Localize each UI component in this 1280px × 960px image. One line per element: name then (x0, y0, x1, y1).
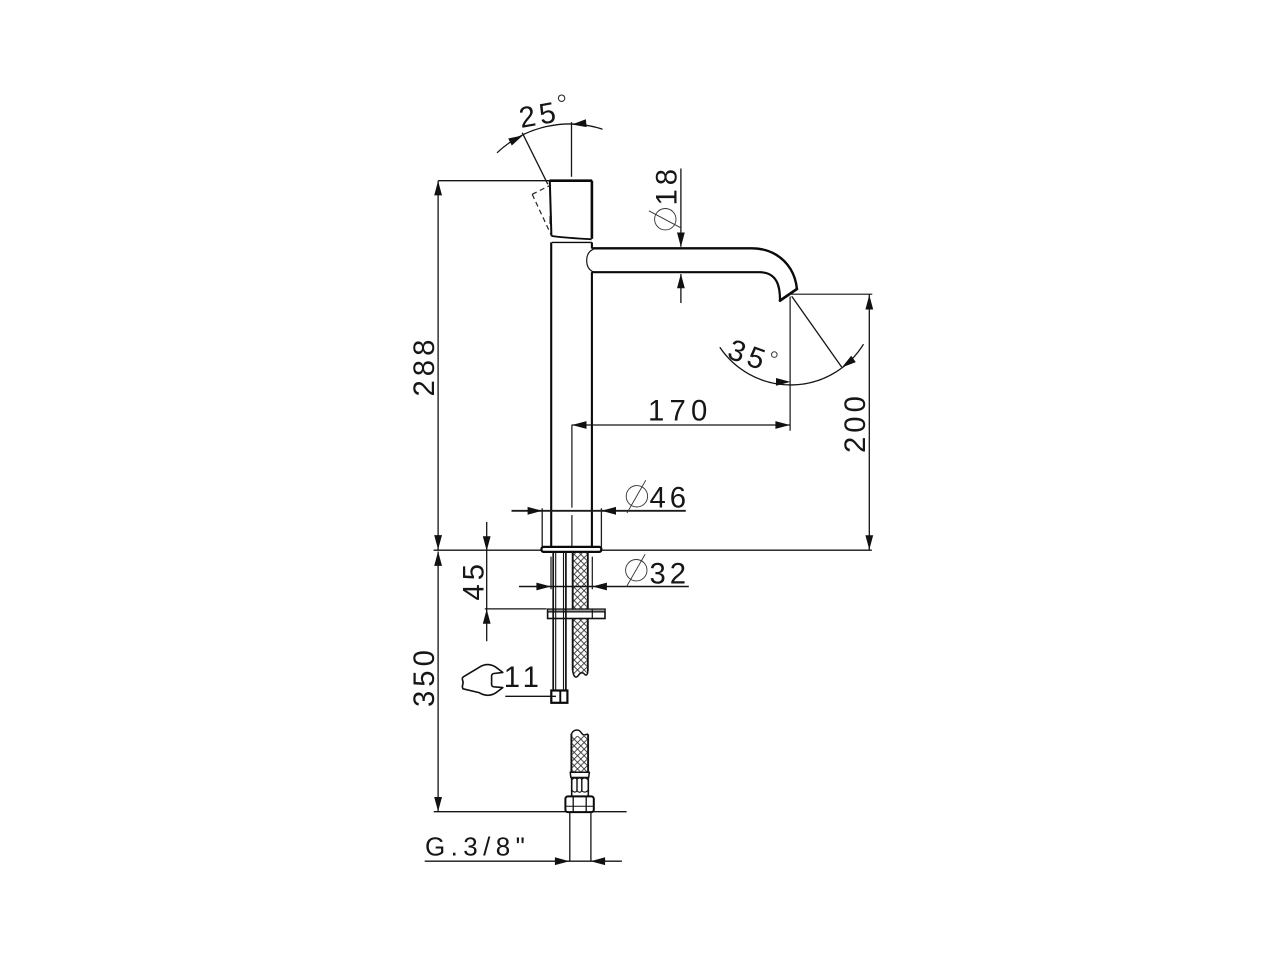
dimension Ø46 (512, 510, 686, 512)
hose hex nut (565, 796, 593, 812)
spout tube (593, 248, 797, 300)
25 arrow left (508, 135, 523, 145)
neck line under handle (552, 241, 592, 243)
svg-text:25: 25 (516, 95, 562, 135)
hose collar (570, 772, 589, 777)
base flange (542, 547, 602, 552)
25 arc (497, 124, 603, 153)
dimension 170 (572, 424, 790, 426)
svg-text:18: 18 (651, 165, 684, 206)
svg-text:350: 350 (408, 646, 441, 707)
dashed tilted handle outline (25 deg) (532, 185, 551, 235)
35 degree circle (772, 352, 778, 358)
G3/8 pipe (570, 812, 591, 861)
350 bottom extension line (434, 811, 627, 813)
25 degree circle (558, 95, 564, 101)
svg-text:45: 45 (458, 560, 491, 601)
200 top extension line (789, 293, 872, 295)
45 bottom extension line (485, 608, 547, 610)
svg-text:32: 32 (650, 558, 691, 591)
35 arrow at diagonal (842, 356, 856, 368)
extension line top (handle top to 288 line) (438, 180, 550, 182)
wrench icon (462, 665, 502, 696)
dimension Ø18 (680, 169, 682, 304)
svg-text:170: 170 (648, 395, 712, 428)
25 vertical line (571, 122, 573, 177)
svg-text:46: 46 (650, 481, 691, 514)
nut 11 on mounting stud (551, 691, 567, 703)
spout tip vertical extension line (789, 297, 791, 431)
25 arrow right (572, 119, 587, 127)
arrow 288 bottom (434, 535, 442, 550)
svg-text:288: 288 (408, 336, 441, 397)
threaded mounting tube (553, 552, 566, 691)
svg-text:200: 200 (839, 392, 872, 453)
25 slant line (522, 133, 548, 185)
arrow 288 top (434, 181, 442, 196)
dimension 200 (868, 294, 870, 550)
Ø18 symbol (655, 209, 676, 230)
35 arrow at vertical line (776, 378, 791, 386)
35 diagonal line (792, 296, 842, 367)
dimension 288 vertical line (437, 181, 439, 812)
dash mark on handle edge (549, 216, 551, 224)
svg-text:G.3/8": G.3/8" (425, 832, 530, 862)
countertop line (434, 549, 872, 551)
dimension 45 line (486, 522, 488, 641)
leader line to nut (505, 695, 556, 697)
dimension G.3/8 (425, 860, 622, 862)
mounting plate (548, 609, 605, 618)
hose top break curve (572, 730, 589, 735)
faucet body column (551, 242, 592, 547)
svg-text:11: 11 (504, 661, 544, 694)
faucet base sides (542, 508, 601, 547)
dimension 350 arrows (434, 551, 442, 566)
arrow 45 top (483, 536, 491, 551)
arrow 45 bottom (483, 609, 491, 624)
threaded hose tail (hatched) upper part (574, 552, 587, 609)
centerline of column (extension of 170) (571, 425, 573, 549)
threaded hose tail lower part with break (574, 619, 587, 674)
35 arc (720, 344, 864, 385)
hose crimp sleeve (572, 778, 589, 797)
faucet handle (550, 181, 593, 240)
spout fillet at column (587, 249, 594, 272)
dimension Ø32 (519, 586, 689, 588)
flexible hose (lower, with break) (572, 736, 587, 772)
hose tail break curve (573, 671, 588, 678)
